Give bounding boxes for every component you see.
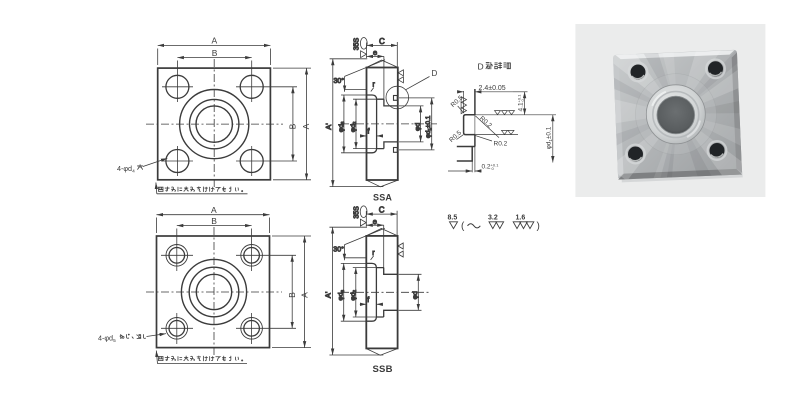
SSB counterbore walls: [376, 268, 383, 317]
detail D R0.5 leader bottom: [457, 135, 464, 140]
SSB 35S roughness symbol: [360, 206, 367, 226]
roughness legend triple triangle: [513, 222, 534, 229]
SSB bottom cone lines: [366, 349, 397, 356]
view2 middle circle: [189, 267, 239, 317]
svg-text:φd: φd: [412, 291, 419, 299]
SSA dim A': [330, 59, 384, 187]
svg-text:D: D: [432, 69, 438, 78]
SSB fillet r label: [371, 256, 374, 260]
photo flange left bevel: [613, 57, 624, 177]
svg-text:SSA: SSA: [373, 192, 392, 202]
detail D dim 2.4: [459, 91, 513, 93]
view2 vertical centerline: [213, 227, 215, 357]
svg-text:2.4±0.05: 2.4±0.05: [479, 85, 506, 92]
detail D face line upper: [474, 89, 476, 115]
svg-text:A': A': [324, 291, 333, 298]
svg-text:e: e: [373, 48, 377, 57]
svg-text:A: A: [301, 123, 311, 129]
photo boss inner step ring: [653, 92, 699, 138]
view2 note corners may be rounded: [159, 356, 243, 361]
view1 dim A right: [273, 68, 311, 180]
SSB dim A': [329, 227, 383, 355]
svg-text:30°: 30°: [334, 77, 345, 85]
SSA dim phi-d1: [399, 98, 435, 150]
svg-text:f: f: [368, 129, 370, 136]
svg-text:B: B: [288, 123, 298, 129]
view1 note corners may be rounded: [159, 187, 243, 192]
svg-text:35S: 35S: [353, 206, 360, 219]
SSA dim f: [360, 135, 383, 137]
view2 text labels: [211, 205, 309, 298]
photo bolt hole bottom-right: [708, 141, 727, 160]
svg-text:D: D: [478, 62, 484, 72]
photo flange bottom bevel: [618, 169, 742, 180]
view2 dim B right: [291, 255, 293, 328]
svg-text:φd1±0.1: φd1±0.1: [546, 126, 553, 149]
SSA dim e: [367, 56, 384, 105]
view2 outer circle: [181, 259, 246, 324]
svg-text:A': A': [324, 123, 333, 130]
svg-text:f: f: [367, 297, 369, 304]
SSA right face roughness: [398, 70, 403, 83]
SSB dim phi-d3: [341, 263, 366, 321]
view1 text labels: [212, 36, 312, 130]
svg-text:SSB: SSB: [373, 364, 393, 375]
svg-text:A: A: [212, 36, 218, 46]
photo raised face circle: [636, 74, 717, 155]
view2 hole centerlines: [161, 229, 296, 345]
svg-text:B: B: [287, 292, 297, 298]
svg-text:B: B: [211, 216, 217, 226]
detail D face line lower with step: [457, 135, 475, 161]
detail D dim 4.1: [513, 92, 528, 115]
view2 threaded hole bottom-left: [166, 318, 188, 340]
SSA 30 degree chamfer annotation: [345, 60, 385, 92]
detail D extension lines bottom: [464, 91, 475, 172]
detail D R0.5 leader top: [458, 106, 464, 113]
svg-text:8.5: 8.5: [448, 215, 458, 222]
svg-text:3.2: 3.2: [488, 215, 498, 222]
svg-text:): ): [537, 221, 540, 232]
view1 outer circle: [180, 90, 249, 159]
SSB right face roughness: [398, 243, 403, 257]
detail D R0.2 leader lower: [475, 136, 492, 141]
view2 threaded hole top-left: [166, 245, 188, 267]
view2 dim B top: [177, 225, 252, 227]
svg-text:A: A: [211, 205, 217, 215]
detail D roughness triangles row 1: [495, 111, 515, 115]
svg-text:R0.2: R0.2: [494, 141, 508, 148]
SSA bell mouth capsule: [367, 95, 377, 153]
photo flange right bevel: [731, 52, 742, 172]
detail D R0.2 leader diagonal: [475, 116, 499, 138]
view2 inner bore circle: [196, 274, 231, 309]
svg-text:φd: φd: [414, 123, 421, 131]
SSB socket shoulder and walls: [384, 268, 398, 317]
view2 dim A right: [272, 236, 311, 348]
detail D roughness triangles stacked: [461, 97, 466, 114]
photo bolt hole top-right: [706, 59, 725, 78]
view1 middle circle: [190, 99, 239, 148]
view1: SSA plan square outline: [158, 68, 271, 180]
SSB dim f: [360, 303, 383, 305]
detail D dim phi-d1: [552, 115, 554, 163]
view1 vertical centerline: [213, 59, 215, 190]
svg-text:C: C: [379, 37, 385, 46]
roughness legend tilde: [468, 224, 481, 228]
svg-text:35S: 35S: [354, 37, 361, 50]
roughness legend double triangle: [489, 222, 504, 229]
SSB dim e: [366, 225, 383, 274]
view1 hole centerlines: [162, 61, 297, 177]
svg-text:A: A: [299, 292, 309, 298]
svg-text:φd1±0.1: φd1±0.1: [425, 115, 432, 138]
SSA dim phi-d2: [353, 99, 376, 148]
SSB 30 degree chamfer annotation: [344, 228, 384, 260]
photo boss ring: [646, 85, 705, 144]
SSA dim phi-d: [399, 106, 424, 142]
view2 note leader and underline: [156, 351, 247, 364]
SSB top cone lines: [366, 229, 397, 236]
detail D groove profile: [464, 115, 475, 135]
photo flange shadow: [622, 171, 743, 182]
view1 bolt hole bottom-right: [240, 150, 263, 173]
SSA o-ring groove bottom: [394, 148, 398, 153]
view1 dim B right: [292, 87, 294, 161]
view2 horizontal centerline: [146, 291, 282, 293]
view1 bolt hole top-right: [240, 75, 263, 98]
svg-text:e: e: [373, 217, 377, 226]
view1 dim A top: [158, 45, 271, 65]
svg-text:1.6: 1.6: [516, 215, 526, 222]
detail D roughness triangles row 2: [502, 130, 515, 134]
SSA o-ring groove top: [394, 96, 398, 101]
svg-text:30°: 30°: [333, 245, 344, 253]
SSB section body outline: [366, 236, 397, 349]
photo bolt hole bottom-left: [626, 145, 645, 164]
SSB dim C: [366, 211, 397, 235]
view1 bolt hole bottom-left: [166, 150, 189, 173]
SSA detail leader to D: [406, 77, 430, 90]
SSA counterbore walls: [377, 99, 384, 148]
view2 leader 4-phi-d5 thread: [147, 334, 167, 337]
photo radial machining streaks: [604, 40, 751, 189]
svg-text:B: B: [212, 48, 218, 58]
roughness legend single triangle: [450, 222, 458, 229]
view1 dim B top: [177, 57, 251, 59]
photo flange square body: [613, 50, 742, 180]
SSA 35S roughness symbol: [360, 38, 367, 58]
SSA socket shoulder and walls: [384, 99, 398, 148]
photo center bore: [657, 96, 695, 134]
SSB dim phi-d: [399, 274, 422, 310]
detail D groove wall extension lines: [475, 115, 556, 135]
SSA dim C: [367, 42, 398, 67]
SSA dim phi-d3: [341, 95, 366, 153]
view1 bolt hole top-left: [166, 75, 189, 98]
SSA horizontal centerline: [341, 123, 437, 125]
SSB bell mouth capsule: [366, 263, 376, 321]
photo flange top bevel: [615, 50, 734, 59]
view1 inner bore circle: [196, 106, 232, 142]
svg-text:C: C: [379, 206, 385, 215]
detail D dim 0.2: [448, 170, 482, 172]
photo background panel: [575, 24, 765, 197]
photo boss ring highlight arcs: [653, 92, 667, 106]
SSB dim phi-d2: [353, 268, 376, 317]
SSA fillet r label: [371, 88, 374, 92]
view1 leader 4-phi-d4 hole: [143, 158, 167, 166]
view1 horizontal centerline: [146, 123, 283, 125]
view2 dim A top: [157, 215, 270, 233]
SSA section body outline: [367, 68, 398, 181]
view1 note leader and underline: [156, 183, 248, 194]
SSB horizontal centerline: [341, 291, 430, 293]
view2 threaded hole top-right: [241, 245, 263, 267]
view2: SSB plan square outline: [157, 236, 270, 348]
SSA top cone lines: [367, 60, 398, 67]
SSA detail circle D: [386, 86, 409, 109]
view2 threaded hole bottom-right: [241, 318, 263, 340]
photo bolt hole top-left: [629, 63, 648, 82]
SSA bottom cone lines: [367, 180, 398, 187]
detail D face plane thin line across groove: [474, 113, 476, 136]
